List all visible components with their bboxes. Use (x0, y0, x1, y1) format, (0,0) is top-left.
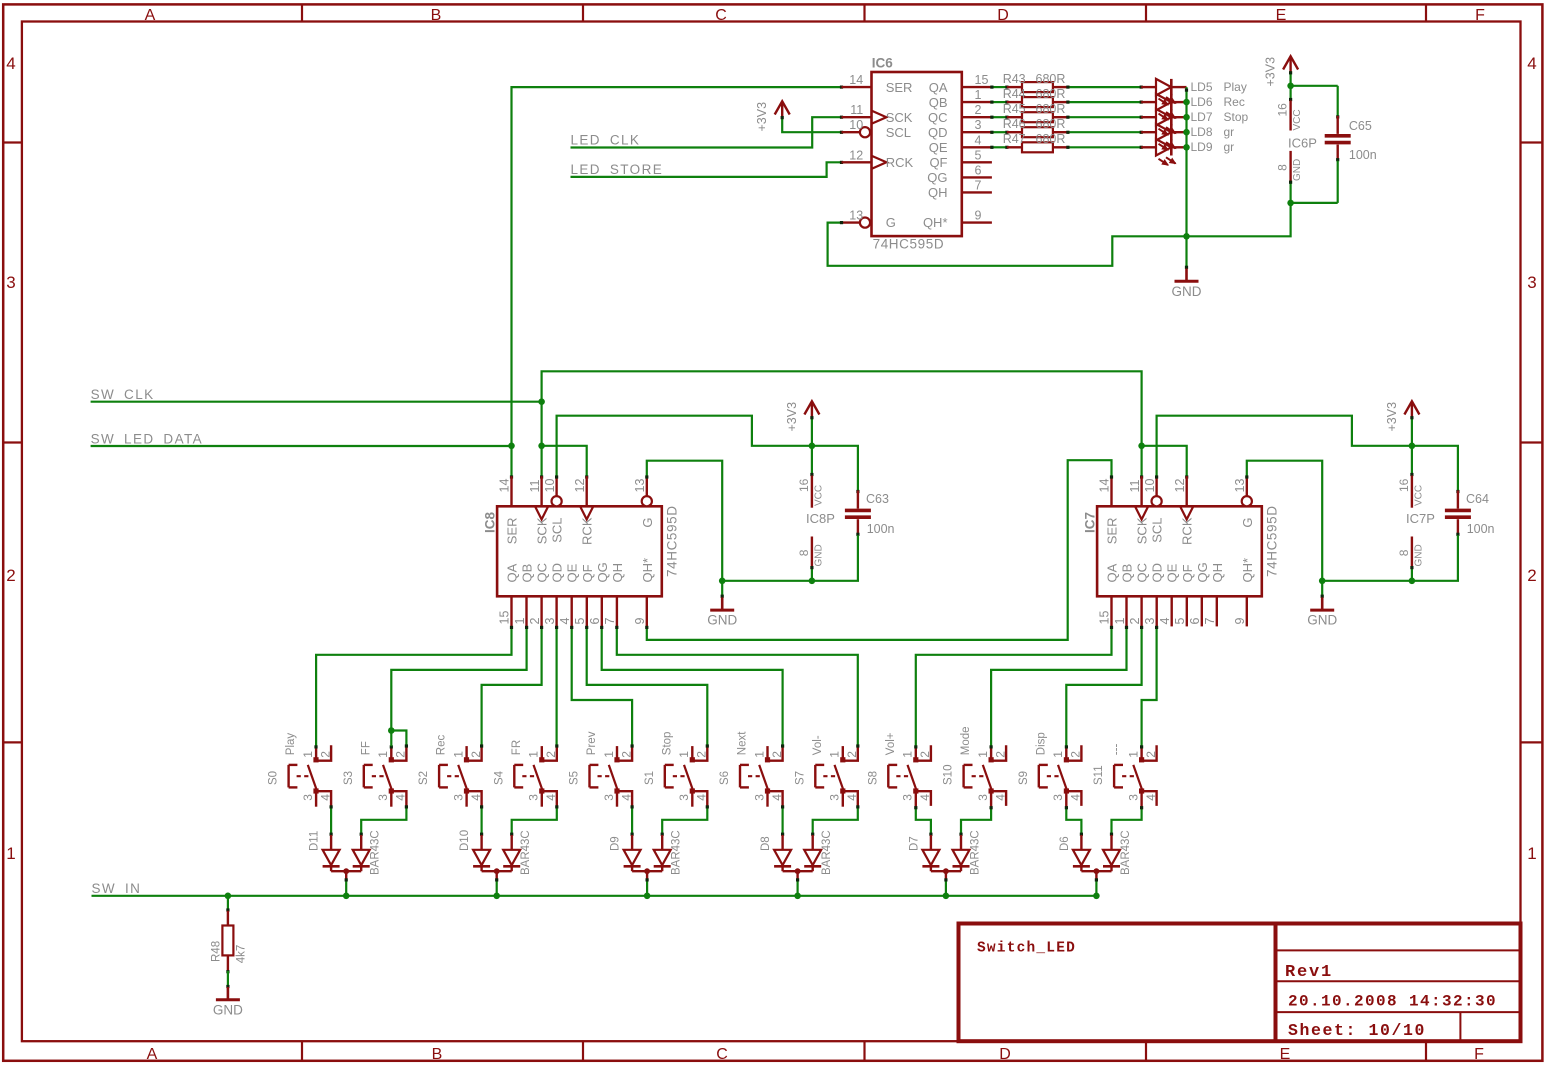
title block revision Rev1 (1285, 963, 1333, 982)
svg-text:1: 1 (376, 751, 390, 758)
wire +3V3 to C63 (812, 446, 858, 491)
frame column ticks top (302, 4, 1426, 21)
svg-text:BAR43C: BAR43C (671, 830, 683, 875)
svg-text:74HC595D: 74HC595D (665, 505, 680, 577)
junction SW_IN at D7 (943, 893, 950, 900)
svg-text:11: 11 (528, 479, 542, 492)
junction LED column row LD6 (1183, 99, 1190, 106)
svg-text:10: 10 (543, 479, 557, 493)
wire SW_LED_DATA to IC8 SER pin (510, 446, 513, 479)
svg-text:QA: QA (929, 80, 948, 95)
svg-text:15: 15 (975, 73, 989, 87)
svg-text:13: 13 (1233, 479, 1247, 493)
wire IC8 QD to S4 (555, 626, 558, 745)
ground GND below LEDs (1172, 236, 1202, 299)
svg-text:Rec: Rec (1224, 95, 1245, 109)
svg-text:GND: GND (1292, 159, 1303, 181)
svg-text:4: 4 (770, 794, 784, 801)
svg-text:S7: S7 (794, 771, 806, 785)
svg-text:3: 3 (451, 794, 465, 801)
junction SW_IN at R48 (225, 893, 232, 900)
svg-text:2: 2 (469, 751, 483, 758)
svg-text:4: 4 (845, 794, 859, 801)
svg-text:C64: C64 (1466, 492, 1489, 506)
svg-text:1: 1 (677, 751, 691, 758)
svg-text:Rec: Rec (436, 734, 448, 755)
svg-text:R44: R44 (1003, 87, 1026, 101)
svg-text:1: 1 (828, 751, 842, 758)
wire C64 bottom to GND rail (1322, 535, 1458, 581)
svg-text:11: 11 (1128, 479, 1142, 492)
junction +3V3 IC7P (1409, 443, 1416, 450)
svg-text:4: 4 (394, 794, 408, 801)
svg-text:QC: QC (928, 110, 948, 125)
svg-text:2: 2 (845, 751, 859, 758)
wire IC8 QG to S6 (600, 626, 783, 745)
LED LD7 Stop (1141, 109, 1248, 135)
svg-text:QB: QB (1120, 564, 1135, 583)
svg-text:4: 4 (619, 794, 633, 801)
svg-text:1: 1 (901, 751, 915, 758)
svg-text:SCK: SCK (1135, 517, 1150, 544)
wire IC G pin to GND rail IC8P (645, 461, 722, 581)
svg-text:2: 2 (318, 751, 332, 758)
svg-text:4: 4 (1158, 618, 1172, 625)
svg-text:GND: GND (813, 544, 824, 566)
svg-text:BAR43C: BAR43C (970, 830, 982, 875)
svg-text:3: 3 (975, 118, 982, 132)
svg-text:Rev1: Rev1 (1285, 963, 1333, 982)
svg-text:S11: S11 (1093, 765, 1105, 785)
svg-text:4: 4 (6, 54, 15, 73)
ground GND below R48 (213, 985, 243, 1018)
frame row numbers left (6, 54, 15, 863)
switch S0 Play (268, 733, 333, 807)
wire IC7 QB to S10 (991, 626, 1128, 746)
svg-text:12: 12 (573, 479, 587, 493)
svg-text:4: 4 (1069, 794, 1083, 801)
svg-text:SER: SER (886, 80, 913, 95)
wire resistor R44 to LED LD6 (1066, 101, 1142, 104)
svg-text:6: 6 (1188, 618, 1202, 625)
svg-text:F: F (1475, 7, 1485, 24)
svg-text:QH*: QH* (923, 215, 948, 230)
resistor R48 4k7 (210, 896, 247, 974)
svg-text:SW_LED_DATA: SW_LED_DATA (91, 432, 203, 447)
svg-text:3: 3 (376, 794, 390, 801)
svg-text:S8: S8 (867, 771, 879, 785)
svg-text:8: 8 (797, 549, 811, 556)
svg-text:QF: QF (1180, 564, 1195, 582)
svg-text:QH: QH (610, 563, 625, 583)
IC8P power pins VCC/GND (797, 446, 835, 581)
svg-text:3: 3 (1143, 618, 1157, 625)
wire SW_IN (92, 895, 1097, 897)
wire S8 to diode D7 left (914, 806, 932, 836)
svg-text:3: 3 (301, 794, 315, 801)
wire +3V3 to IC6 SCL pin 10 (781, 116, 844, 134)
wire diode D7 to SW_IN (944, 878, 947, 896)
svg-text:S6: S6 (719, 771, 731, 785)
svg-text:Mode: Mode (960, 726, 972, 755)
svg-text:QA: QA (505, 563, 520, 582)
svg-text:VCC: VCC (1413, 485, 1424, 506)
svg-text:S1: S1 (644, 771, 656, 785)
svg-text:D11: D11 (309, 831, 321, 851)
svg-text:BAR43C: BAR43C (1120, 830, 1132, 875)
svg-text:S5: S5 (569, 771, 581, 785)
junction SW_IN at D8 (794, 893, 801, 900)
svg-text:SCL: SCL (1150, 518, 1165, 543)
wire jumper S3 pins 1-2 (391, 731, 408, 748)
svg-text:D: D (999, 1046, 1011, 1063)
svg-text:GND: GND (1307, 613, 1337, 628)
svg-text:QH*: QH* (640, 558, 655, 583)
svg-text:SCK: SCK (886, 110, 913, 125)
svg-text:FR: FR (511, 740, 523, 755)
svg-text:F: F (1474, 1046, 1484, 1063)
junction GND rail IC8P (719, 578, 726, 585)
svg-text:1: 1 (1527, 844, 1536, 863)
svg-text:QD: QD (928, 125, 948, 140)
wire IC8 QE to S5 (570, 626, 632, 745)
svg-text:Vol+: Vol+ (885, 732, 897, 755)
svg-text:2: 2 (770, 751, 784, 758)
svg-text:QE: QE (1165, 563, 1180, 582)
svg-text:74HC595D: 74HC595D (873, 236, 945, 251)
junction SW_CLK (538, 398, 545, 405)
svg-text:S9: S9 (1018, 771, 1030, 785)
svg-text:2: 2 (1069, 751, 1083, 758)
svg-text:3: 3 (752, 794, 766, 801)
svg-text:680R: 680R (1036, 132, 1066, 146)
frame row ticks left (3, 143, 22, 743)
svg-text:D6: D6 (1059, 836, 1071, 851)
svg-text:LD9: LD9 (1191, 140, 1213, 154)
junction GND pin IC7P (1409, 578, 1416, 585)
title block border (959, 924, 1521, 1042)
junction S3 jumper (388, 727, 395, 734)
resistor R45 name and value labels (1003, 102, 1066, 116)
svg-text:A: A (145, 7, 156, 24)
svg-text:Play: Play (1224, 80, 1247, 94)
svg-text:BAR43C: BAR43C (520, 830, 532, 875)
svg-text:QG: QG (595, 562, 610, 582)
svg-text:E: E (1276, 7, 1287, 24)
svg-text:4: 4 (469, 794, 483, 801)
wire IC8 QF to S1 (585, 626, 707, 745)
svg-text:16: 16 (1276, 103, 1290, 117)
svg-text:SER: SER (505, 518, 520, 545)
svg-text:2: 2 (993, 751, 1007, 758)
svg-text:2: 2 (1527, 566, 1536, 585)
svg-text:11: 11 (850, 103, 863, 117)
svg-text:15: 15 (498, 611, 512, 625)
wire IC7 QC to S9 (1066, 626, 1143, 746)
svg-text:QH*: QH* (1240, 558, 1255, 583)
svg-text:SER: SER (1105, 518, 1120, 545)
wire S1 to diode D9 right (661, 805, 709, 836)
wire diode D6 to SW_IN (1095, 878, 1098, 896)
resistor R47 name and value labels (1003, 132, 1066, 146)
svg-text:2: 2 (544, 751, 558, 758)
svg-text:RCK: RCK (886, 155, 914, 170)
svg-text:C: C (716, 1046, 728, 1063)
svg-text:QF: QF (929, 155, 947, 170)
LED LD6 Rec (1141, 94, 1245, 120)
net label LED_CLK (571, 133, 641, 148)
wire IC6 QD to resistor R46 (990, 131, 1008, 134)
wire +3V3 to C64 (1412, 446, 1458, 491)
junction GND rail IC7P (1319, 578, 1326, 585)
svg-text:2: 2 (1128, 618, 1142, 625)
svg-text:100n: 100n (1349, 148, 1377, 162)
svg-text:A: A (147, 1046, 158, 1063)
svg-text:LD8: LD8 (1191, 125, 1213, 139)
svg-text:B: B (432, 1046, 443, 1063)
svg-text:3: 3 (828, 794, 842, 801)
switch S1 Stop (644, 732, 709, 807)
wire IC8 QC to S2 (482, 626, 544, 745)
diode D10 BAR43C pair (459, 830, 532, 879)
svg-text:Sheet: 10/10: Sheet: 10/10 (1288, 1021, 1426, 1040)
wire resistor R46 to LED LD8 (1066, 131, 1142, 134)
svg-text:GND: GND (213, 1002, 243, 1017)
junction GND pin IC8P (809, 578, 816, 585)
svg-text:R48: R48 (210, 941, 222, 962)
title block sheet number Sheet: 10/10 (1288, 1021, 1426, 1040)
junction SW_IN at D9 (644, 893, 651, 900)
net label SW_LED_DATA (91, 432, 203, 447)
svg-text:100n: 100n (867, 522, 895, 536)
svg-text:2: 2 (619, 751, 633, 758)
svg-text:6: 6 (975, 163, 982, 177)
svg-text:Disp: Disp (1035, 732, 1047, 755)
svg-text:2: 2 (528, 618, 542, 625)
svg-text:1: 1 (752, 751, 766, 758)
svg-text:D8: D8 (760, 836, 772, 851)
svg-text:1: 1 (1113, 618, 1127, 625)
svg-text:4: 4 (695, 794, 709, 801)
wire IC SCL to +3V3 IC7P (1155, 416, 1412, 479)
svg-text:16: 16 (797, 478, 811, 492)
wire LED_CLK (571, 116, 844, 148)
junction SW_CLK IC8 (538, 443, 545, 450)
power +3V3 supply IC7P (1385, 401, 1419, 446)
net label LED_STORE (571, 162, 664, 177)
net label SW_IN (92, 881, 142, 896)
svg-text:gr: gr (1224, 140, 1235, 154)
wire C65 bottom to GND rail (1291, 161, 1338, 203)
svg-text:LD5: LD5 (1191, 80, 1213, 94)
svg-text:4: 4 (544, 794, 558, 801)
svg-text:Stop: Stop (661, 732, 673, 756)
LED LD9 gr (1141, 139, 1234, 165)
wire SER IC6 to SW_LED_DATA vertical (512, 86, 844, 446)
diode D11 BAR43C pair (309, 830, 382, 878)
svg-text:SW_CLK: SW_CLK (91, 387, 155, 402)
svg-text:3: 3 (602, 794, 616, 801)
wire resistor R45 to LED LD7 (1066, 116, 1142, 119)
svg-text:14: 14 (498, 479, 512, 493)
junction GND IC6P (1287, 200, 1294, 207)
svg-text:3: 3 (976, 794, 990, 801)
net label SW_CLK (91, 387, 155, 402)
svg-text:4: 4 (1527, 54, 1536, 73)
wire S10 to diode D7 right (959, 806, 992, 836)
resistor R45 680R (1007, 112, 1068, 122)
svg-text:1: 1 (1051, 751, 1065, 758)
junction +3V3 IC6P (1287, 83, 1294, 90)
svg-text:D7: D7 (908, 836, 920, 851)
wire IC6 G pin to GND rail (828, 203, 1291, 266)
svg-text:4k7: 4k7 (236, 945, 248, 964)
junction LED column row LD7 (1183, 114, 1190, 121)
wire SW_LED_DATA (91, 445, 512, 447)
wire +3V3 rail to C65 (1291, 86, 1338, 116)
IC IC8 74HC595D (483, 476, 680, 626)
ground GND IC7P (1307, 581, 1337, 628)
svg-text:R46: R46 (1003, 117, 1026, 131)
svg-text:QH: QH (1210, 563, 1225, 583)
title block date 20.10.2008 14:32:30 (1288, 993, 1497, 1011)
wire S2 to diode D10 left (480, 805, 483, 836)
svg-text:LD6: LD6 (1191, 95, 1213, 109)
svg-text:Vol-: Vol- (812, 735, 824, 755)
power +3V3 supply near IC6 (755, 101, 790, 131)
wire IC6 QB to resistor R44 (990, 101, 1008, 104)
svg-text:3: 3 (6, 273, 15, 292)
svg-text:6: 6 (588, 618, 602, 625)
svg-text:14: 14 (849, 73, 863, 87)
svg-text:D: D (997, 7, 1009, 24)
svg-text:IC6P: IC6P (1288, 136, 1317, 151)
svg-text:13: 13 (849, 209, 863, 223)
svg-text:+3V3: +3V3 (785, 402, 799, 432)
resistor R44 680R (1007, 97, 1068, 107)
wire resistor R47 to LED LD9 (1066, 146, 1142, 149)
resistor R46 680R (1007, 127, 1068, 137)
svg-text:1: 1 (527, 751, 541, 758)
switch S4 FR (493, 740, 558, 807)
frame column letters bottom (147, 1046, 1484, 1063)
svg-text:GND: GND (1172, 284, 1202, 299)
svg-text:7: 7 (975, 178, 982, 192)
resistor R47 680R (1007, 142, 1068, 152)
wire S0 to diode D11 left (330, 805, 333, 836)
wire IC6 QC to resistor R45 (990, 116, 1008, 119)
diode D9 BAR43C pair (610, 830, 683, 878)
svg-text:QH: QH (928, 185, 948, 200)
svg-text:2: 2 (6, 566, 15, 585)
svg-text:4: 4 (975, 133, 982, 147)
svg-text:14: 14 (1098, 479, 1112, 493)
switch S5 Prev (569, 731, 634, 806)
junction SW_CLK IC7 (1138, 443, 1145, 450)
wire IC7 QD to S11 (1142, 626, 1159, 746)
svg-text:1: 1 (301, 751, 315, 758)
svg-text:GND: GND (707, 613, 737, 628)
svg-text:680R: 680R (1036, 72, 1066, 86)
svg-text:SCL: SCL (550, 518, 565, 543)
wire SW_CLK down to IC8 SCK/RCK (540, 402, 588, 479)
svg-text:R45: R45 (1003, 102, 1026, 116)
svg-text:10: 10 (1143, 479, 1157, 493)
svg-text:680R: 680R (1036, 117, 1066, 131)
svg-text:D9: D9 (610, 836, 622, 851)
frame column ticks bottom (302, 1041, 1426, 1061)
wire S3 to diode D11 right (360, 805, 408, 836)
svg-text:5: 5 (573, 618, 587, 625)
svg-text:QD: QD (550, 563, 565, 583)
svg-text:SW_IN: SW_IN (92, 881, 142, 896)
svg-text:SCK: SCK (535, 517, 550, 544)
svg-text:QE: QE (929, 140, 948, 155)
svg-text:QG: QG (1195, 562, 1210, 582)
capacitor C63 100n (845, 490, 895, 536)
switch S9 Disp (1018, 732, 1083, 807)
svg-text:C65: C65 (1349, 119, 1372, 133)
wire IC8 QH* to IC7 SER (645, 460, 1113, 640)
resistor R43 name and value labels (1003, 72, 1066, 86)
svg-text:4: 4 (318, 794, 332, 801)
wire S6 to diode D8 left (781, 805, 784, 836)
svg-text:1: 1 (602, 751, 616, 758)
svg-text:2: 2 (394, 751, 408, 758)
wire LED_STORE (571, 161, 844, 177)
resistor R46 name and value labels (1003, 117, 1066, 131)
wire IC8 QA to S0 (316, 626, 513, 746)
ground GND IC8P (707, 581, 737, 628)
svg-text:G: G (1240, 518, 1255, 528)
svg-text:RCK: RCK (1180, 517, 1195, 545)
wire diode D11 to SW_IN (345, 878, 348, 896)
svg-text:2: 2 (1144, 751, 1158, 758)
LED LD8 gr (1141, 124, 1234, 150)
svg-text:QF: QF (580, 564, 595, 582)
svg-text:C63: C63 (866, 492, 889, 506)
IC6P power pins VCC/GND of IC6 (1276, 86, 1317, 203)
svg-text:4: 4 (918, 794, 932, 801)
wire IC8 QH to S7 (615, 626, 858, 745)
switch S11 --- (1093, 744, 1158, 807)
svg-text:+3V3: +3V3 (755, 102, 769, 132)
IC6 74HC595D shift register (842, 56, 992, 252)
wire IC6 QA to resistor R43 (990, 86, 1008, 89)
wire S11 to diode D6 right (1110, 806, 1143, 836)
wire IC8 QB to S3 (391, 626, 528, 731)
frame row numbers right (1527, 54, 1536, 863)
svg-text:5: 5 (1173, 618, 1187, 625)
svg-text:S10: S10 (943, 765, 955, 785)
svg-text:9: 9 (1233, 618, 1247, 625)
wire diode D10 to SW_IN (495, 878, 498, 896)
svg-text:QC: QC (535, 563, 550, 583)
IC IC7 74HC595D (1083, 476, 1280, 626)
svg-text:9: 9 (975, 209, 982, 223)
svg-text:100n: 100n (1467, 522, 1495, 536)
svg-text:1: 1 (976, 751, 990, 758)
junction LED GND rail (1183, 233, 1190, 240)
diode D6 BAR43C pair (1059, 830, 1132, 878)
svg-text:20.10.2008 14:32:30: 20.10.2008 14:32:30 (1288, 993, 1497, 1011)
svg-text:VCC: VCC (813, 485, 824, 506)
svg-text:+3V3: +3V3 (1264, 57, 1278, 87)
wire R48 to GND (227, 971, 229, 986)
svg-text:7: 7 (603, 618, 617, 625)
svg-text:Prev: Prev (586, 731, 598, 755)
svg-text:S0: S0 (268, 771, 280, 785)
